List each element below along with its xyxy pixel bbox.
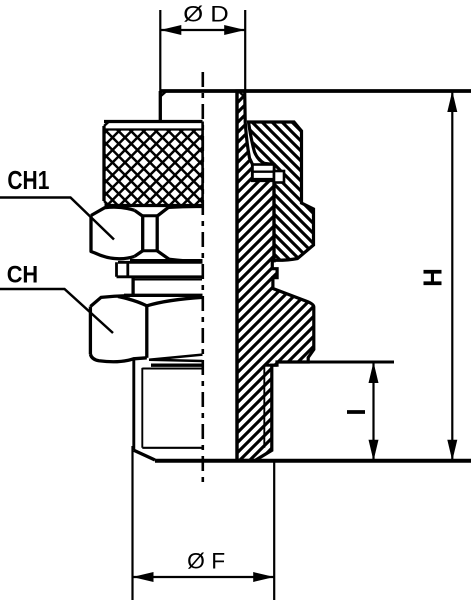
knurl left edge bbox=[102, 126, 105, 201]
hex CH bottom fan lines bbox=[149, 355, 203, 361]
tube top-left chamfer bbox=[160, 91, 166, 97]
hex CH1 silhouette left bbox=[91, 207, 135, 259]
hex CH top-left slant bbox=[90, 296, 130, 307]
dim OF left extension line bbox=[131, 446, 133, 600]
dim OF line bbox=[133, 576, 275, 578]
dim OF right extension line bbox=[273, 460, 275, 600]
thread end chamfer circle line bbox=[142, 447, 202, 449]
hex CH1 left face boundary arc bbox=[135, 210, 143, 256]
hex CH1 front face top bbox=[169, 205, 203, 209]
hex CH bottom arc bbox=[90, 354, 146, 362]
top face line (H upper extension) bbox=[160, 89, 471, 93]
dim H bottom arrow bbox=[447, 440, 457, 461]
dim I line bbox=[372, 362, 374, 461]
leader CH1 bbox=[0, 198, 114, 240]
dim I bottom arrow bbox=[369, 440, 379, 461]
body section hatch (right half) bbox=[237, 91, 314, 461]
thread start line left bbox=[142, 368, 202, 370]
bottom face line (H lower extension) bbox=[155, 459, 471, 463]
nut section hatch (right half, opposite hatch) bbox=[249, 122, 314, 260]
tube top-right chamfer bbox=[239, 91, 245, 97]
dim OD left extension line bbox=[159, 10, 161, 91]
dim H top arrow bbox=[447, 91, 457, 112]
knurl left top chamfer bbox=[104, 122, 109, 127]
hex CH left edge bbox=[89, 307, 92, 355]
tube left wall bbox=[159, 91, 162, 122]
svg-text:CH1: CH1 bbox=[7, 167, 49, 195]
dim OD line bbox=[160, 29, 245, 31]
stud thread crest left bbox=[132, 359, 135, 451]
svg-text:Ø F: Ø F bbox=[187, 549, 225, 574]
hex CH bottom face line left bbox=[151, 364, 203, 367]
svg-text:I: I bbox=[341, 408, 371, 415]
hex CH chamfer arcs bbox=[118, 297, 203, 306]
centerline bbox=[202, 72, 205, 486]
inner ring detail rectangle R1 bbox=[253, 165, 275, 180]
hex CH top edge bbox=[124, 294, 203, 297]
knurl top edge bbox=[104, 120, 203, 123]
stud thread root left bbox=[141, 368, 143, 448]
svg-text:H: H bbox=[418, 268, 448, 287]
bore wall (center right) bbox=[235, 91, 238, 460]
dim OD right arrow bbox=[224, 25, 245, 35]
stem shoulder line bbox=[133, 278, 202, 280]
svg-text:Ø D: Ø D bbox=[183, 2, 229, 27]
stud top face line right bbox=[264, 364, 277, 367]
svg-text:CH: CH bbox=[7, 262, 39, 289]
knurl inner top line bbox=[105, 128, 203, 130]
inner ring detail rectangle R2 bbox=[274, 171, 284, 183]
washer left view bbox=[117, 262, 203, 277]
knurl left bottom chamfer bbox=[104, 201, 109, 206]
knurl bottom edge bbox=[105, 204, 203, 207]
dim OD right extension line bbox=[244, 10, 246, 91]
dim I top arrow bbox=[369, 362, 379, 383]
knurl right edge at centerline bbox=[201, 122, 204, 206]
hex CH1 corner facet lines bbox=[143, 216, 158, 251]
knurl crosshatch fill bbox=[105, 130, 203, 206]
hex CH corner edge bbox=[145, 306, 148, 358]
dim OF right arrow bbox=[253, 572, 274, 582]
dim OF left arrow bbox=[133, 572, 154, 582]
hex CH1 front face boundary arc bbox=[157, 207, 169, 259]
dim H line bbox=[451, 91, 453, 461]
stud bottom chamfer left bbox=[134, 450, 155, 460]
hex CH1 front face bottom bbox=[130, 259, 203, 261]
dim OD left arrow bbox=[160, 25, 181, 35]
stem left edge bbox=[131, 277, 134, 295]
leader CH bbox=[0, 289, 113, 333]
stud thread root right (section) bbox=[263, 365, 265, 448]
I dim extension line (hex bottom face right) bbox=[308, 361, 394, 364]
